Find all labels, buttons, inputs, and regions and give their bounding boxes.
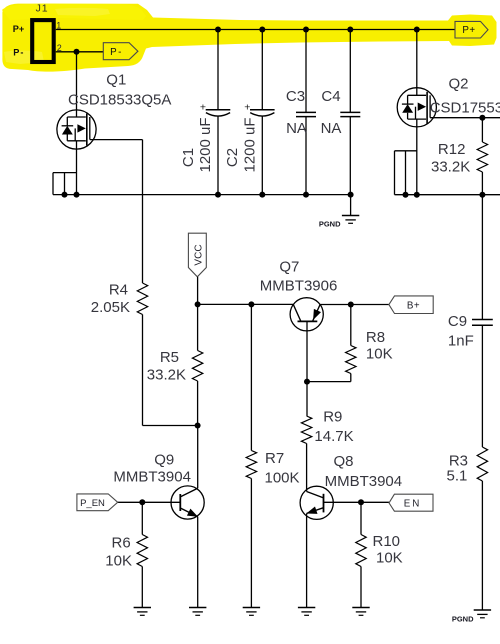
svg-text:EN: EN xyxy=(404,499,422,510)
svg-text:+: + xyxy=(244,101,250,113)
wire Q7 emitter to B+ xyxy=(320,304,389,306)
svg-text:P+: P+ xyxy=(462,25,475,36)
wire Q8 base to EN xyxy=(324,501,390,503)
svg-text:P-: P- xyxy=(13,48,24,58)
highlight marker over input connector and P+ rail xyxy=(2,4,497,72)
capacitor C1 xyxy=(200,30,230,195)
label R5 xyxy=(160,349,179,366)
svg-text:C9: C9 xyxy=(448,313,467,330)
svg-text:10K: 10K xyxy=(366,346,393,363)
svg-text:MMBT3906: MMBT3906 xyxy=(260,277,338,294)
svg-text:R5: R5 xyxy=(160,349,179,366)
flag B+ xyxy=(389,296,433,314)
value R9 14.7K xyxy=(314,428,353,445)
wire VCC bus xyxy=(198,303,294,305)
value CSD18533Q5A xyxy=(68,92,171,109)
label Q7 xyxy=(279,259,299,276)
resistor R10 xyxy=(356,502,366,607)
node junction C3 bottom xyxy=(303,192,309,198)
svg-text:P+: P+ xyxy=(13,24,24,34)
value R10 10K xyxy=(376,550,403,567)
svg-text:R10: R10 xyxy=(373,533,401,550)
svg-text:Q2: Q2 xyxy=(449,76,469,93)
svg-text:Q9: Q9 xyxy=(154,451,174,468)
flag P- xyxy=(103,43,138,60)
value R8 10K xyxy=(366,346,393,363)
flag EN xyxy=(389,494,433,511)
label Q1 xyxy=(106,72,126,89)
svg-text:10K: 10K xyxy=(376,550,403,567)
transistor Q8 xyxy=(300,486,333,519)
svg-text:R12: R12 xyxy=(438,141,466,158)
svg-text:R4: R4 xyxy=(109,282,128,299)
wire top P+ bus xyxy=(56,29,455,31)
capacitor C3 xyxy=(296,30,316,195)
wire Q7 base xyxy=(306,321,308,416)
svg-text:R9: R9 xyxy=(323,409,342,426)
node junction nettie1 xyxy=(62,192,68,198)
transistor Q2 xyxy=(397,30,436,127)
wire PGND bus xyxy=(53,194,351,196)
svg-text:NA: NA xyxy=(286,120,307,137)
svg-text:C2: C2 xyxy=(224,148,241,167)
wire Q9 emitter xyxy=(197,517,199,608)
svg-text:VCC: VCC xyxy=(193,244,204,265)
node junction C4 bottom xyxy=(348,192,354,198)
node junction Q2 drain xyxy=(414,27,420,33)
wire Q2 source bus xyxy=(395,194,500,196)
power flag VCC xyxy=(188,233,206,277)
transistor Q7 xyxy=(290,298,323,331)
label P- left xyxy=(13,48,24,58)
wire Q2 gate xyxy=(430,117,500,119)
label R10 xyxy=(373,533,401,550)
capacitor C4 xyxy=(340,30,360,195)
pin 1 label xyxy=(56,21,61,31)
svg-text:CSD18533Q5A: CSD18533Q5A xyxy=(68,92,171,109)
value R4 2.05K xyxy=(91,299,130,316)
svg-text:R6: R6 xyxy=(112,535,131,552)
svg-text:P-: P- xyxy=(110,47,123,58)
svg-text:C3: C3 xyxy=(286,88,305,105)
label Q9 xyxy=(154,451,174,468)
svg-text:CSD17553Q5A: CSD17553Q5A xyxy=(430,100,500,117)
node junction C3 top xyxy=(303,27,309,33)
svg-text:1: 1 xyxy=(56,21,61,31)
svg-text:2.05K: 2.05K xyxy=(91,299,130,316)
node junction Q2 source xyxy=(414,192,420,198)
node junction R6 top xyxy=(139,499,145,505)
resistor R12 xyxy=(477,118,487,195)
flag P+ xyxy=(455,21,488,38)
svg-text:2: 2 xyxy=(57,43,62,53)
wire Q1 gate xyxy=(90,140,143,283)
flag P_EN xyxy=(77,494,118,511)
svg-text:1nF: 1nF xyxy=(448,333,474,350)
label C3 xyxy=(286,88,305,105)
ground PGND top xyxy=(319,195,359,229)
value R12 33.2K xyxy=(431,159,470,176)
svg-text:MMBT3904: MMBT3904 xyxy=(113,468,191,485)
wire Q2 source xyxy=(416,119,418,195)
svg-text:1200 uF: 1200 uF xyxy=(197,117,214,172)
value MMBT3904 Q9 xyxy=(113,468,191,485)
value R3 5.1 xyxy=(447,468,468,485)
svg-text:Q1: Q1 xyxy=(106,72,126,89)
node junction R7 top xyxy=(248,301,254,307)
resistor R3 xyxy=(477,447,487,610)
node junction C1 top xyxy=(215,27,221,33)
resistor R5 xyxy=(192,304,202,425)
label R7 xyxy=(265,450,284,467)
net-tie Q1 source xyxy=(53,173,77,195)
wire R8 bottom link xyxy=(307,381,351,383)
ground GND Q8 xyxy=(298,608,315,616)
wire Q9 collector xyxy=(197,426,199,489)
label R6 xyxy=(112,535,131,552)
svg-text:100K: 100K xyxy=(265,470,300,487)
value CSD17553Q5A xyxy=(430,100,500,117)
node junction Q1 drain xyxy=(74,49,80,55)
pin 2 label xyxy=(57,43,62,53)
label R3 xyxy=(449,453,468,470)
label C4 xyxy=(321,88,340,105)
wire R4 bottom xyxy=(143,425,198,427)
value C4 NA xyxy=(321,120,342,137)
svg-text:PGND: PGND xyxy=(319,219,341,228)
label R9 xyxy=(323,409,342,426)
label R4 xyxy=(109,282,128,299)
svg-text:P_EN: P_EN xyxy=(80,498,105,509)
wire Q8 emitter xyxy=(306,513,308,607)
svg-text:33.2K: 33.2K xyxy=(147,367,186,384)
svg-text:PGND: PGND xyxy=(452,615,474,624)
wire VCC to node xyxy=(197,277,199,305)
svg-text:Q8: Q8 xyxy=(333,453,353,470)
ground PGND bottom xyxy=(452,610,491,624)
node junction C9 top xyxy=(479,192,485,198)
connector J1 xyxy=(32,3,54,63)
node junction R10 top xyxy=(358,499,364,505)
label C2 xyxy=(224,148,241,167)
wire Q9 base xyxy=(118,501,181,503)
value C3 NA xyxy=(286,120,307,137)
value R6 10K xyxy=(105,553,132,570)
ground GND R10 xyxy=(352,608,369,616)
svg-text:14.7K: 14.7K xyxy=(314,428,353,445)
node junction R12 top xyxy=(479,115,485,121)
node junction Q1 source xyxy=(74,192,80,198)
value MMBT3904 Q8 xyxy=(325,473,403,490)
wire Q1 source xyxy=(76,141,78,195)
resistor R4 xyxy=(137,283,147,426)
value C9 1nF xyxy=(448,333,474,350)
node junction R8 top xyxy=(348,302,354,308)
node junction VCC xyxy=(195,301,201,307)
transistor Q1 xyxy=(57,110,96,149)
node junction C4 top xyxy=(347,27,353,33)
label C9 xyxy=(448,313,467,330)
resistor R9 xyxy=(301,416,311,492)
wire Q1 drain xyxy=(76,52,78,117)
label R8 xyxy=(366,329,385,346)
node junction R4 R5 xyxy=(195,423,201,429)
label Q2 xyxy=(449,76,469,93)
svg-text:R7: R7 xyxy=(265,450,284,467)
svg-text:MMBT3904: MMBT3904 xyxy=(325,473,403,490)
svg-text:1200 uF: 1200 uF xyxy=(242,117,259,172)
node junction C1 bottom xyxy=(215,192,221,198)
resistor R6 xyxy=(137,502,147,607)
capacitor C2 xyxy=(244,30,274,195)
label R12 xyxy=(438,141,466,158)
svg-text:5.1: 5.1 xyxy=(447,468,468,485)
label Q8 xyxy=(333,453,353,470)
svg-text:33.2K: 33.2K xyxy=(431,159,470,176)
ground GND R7 xyxy=(243,608,260,616)
svg-text:10K: 10K xyxy=(105,553,132,570)
label C1 xyxy=(180,148,197,167)
resistor R7 xyxy=(246,304,256,607)
node junction C2 top xyxy=(259,27,265,33)
ground GND R6 xyxy=(134,608,151,616)
node junction nettie2 xyxy=(403,192,409,198)
svg-text:B+: B+ xyxy=(407,300,420,311)
value R7 100K xyxy=(265,470,300,487)
wire J1 pin2 to P- flag xyxy=(56,51,104,53)
value MMBT3906 Q7 xyxy=(260,277,338,294)
transistor Q9 xyxy=(171,486,204,519)
svg-text:C1: C1 xyxy=(180,148,197,167)
svg-text:R8: R8 xyxy=(366,329,385,346)
node junction Q7 base xyxy=(304,379,310,385)
svg-text:J1: J1 xyxy=(36,3,49,15)
svg-text:C4: C4 xyxy=(321,88,340,105)
ground GND Q9 xyxy=(189,608,206,616)
value R5 33.2K xyxy=(147,367,186,384)
svg-text:NA: NA xyxy=(321,120,342,137)
net-tie Q2 source xyxy=(395,151,417,195)
capacitor C9 xyxy=(472,195,493,447)
svg-text:Q7: Q7 xyxy=(279,259,299,276)
label P+ left xyxy=(13,24,24,34)
node junction C2 bottom xyxy=(259,192,265,198)
resistor R8 xyxy=(346,305,356,382)
value C1 1200 uF xyxy=(197,117,214,172)
value C2 1200 uF xyxy=(242,117,259,172)
svg-text:+: + xyxy=(200,101,206,113)
